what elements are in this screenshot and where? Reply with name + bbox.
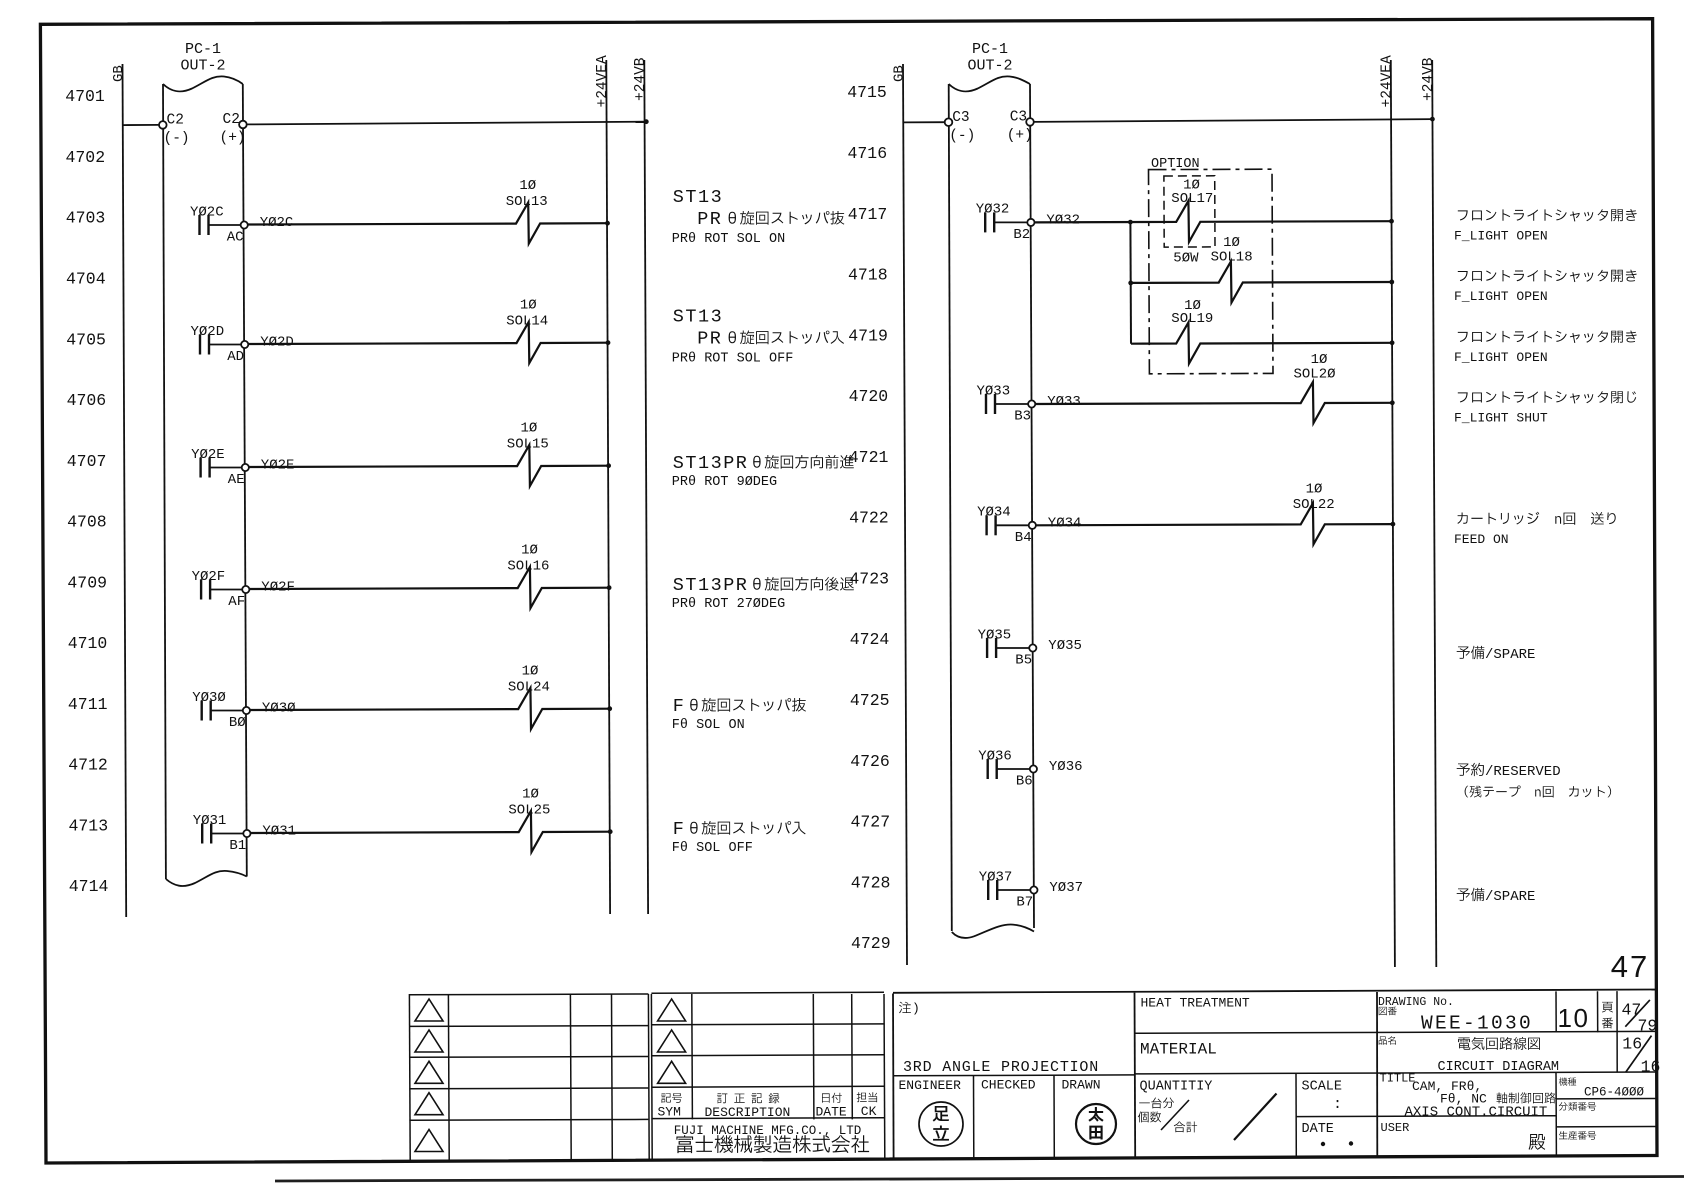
contact Y031	[201, 824, 203, 844]
svg-text:+24VEA: +24VEA	[595, 55, 611, 108]
svg-text:/SPARE: /SPARE	[1485, 889, 1535, 905]
svg-text:16: 16	[1622, 1035, 1642, 1054]
wire contact Y030 to node B0	[211, 710, 243, 712]
junction dot rung 4722 at +24VEA	[1391, 522, 1396, 527]
svg-text:WEE-1030: WEE-1030	[1421, 1013, 1533, 1035]
revision triangle (left table)	[415, 1130, 443, 1152]
svg-text:SOL19: SOL19	[1171, 311, 1213, 327]
wire rung to solenoid SOL24 and +24VEA	[250, 688, 610, 729]
svg-text:SOL14: SOL14	[506, 314, 548, 330]
svg-text:+24VB: +24VB	[1421, 57, 1437, 101]
svg-text:B6: B6	[1016, 774, 1033, 790]
svg-text:FEED ON: FEED ON	[1454, 532, 1509, 547]
node AC	[241, 221, 248, 228]
svg-text:4705: 4705	[66, 330, 106, 349]
svg-text:4704: 4704	[66, 270, 106, 289]
wire contact Y036 to node B6	[997, 768, 1030, 770]
description text	[1457, 512, 1615, 525]
svg-text:YØ33: YØ33	[977, 383, 1011, 399]
wire C3(+) to +24VB	[1034, 119, 1433, 122]
svg-text:CK: CK	[861, 1104, 877, 1119]
svg-text:4702: 4702	[65, 148, 105, 167]
svg-text:YØ2E: YØ2E	[191, 447, 225, 463]
svg-text:YØ2F: YØ2F	[192, 569, 226, 585]
svg-text:YØ34: YØ34	[1048, 515, 1082, 531]
revision triangle (right table)	[658, 999, 686, 1021]
svg-text:ST13PR: ST13PR	[673, 575, 749, 596]
svg-text:PRθ ROT 9ØDEG: PRθ ROT 9ØDEG	[672, 475, 777, 490]
svg-text:B4: B4	[1015, 530, 1032, 546]
svg-text:F_LIGHT OPEN: F_LIGHT OPEN	[1454, 289, 1548, 304]
wire contact Y035 to node B5	[996, 647, 1029, 649]
svg-text:PC-1: PC-1	[972, 41, 1008, 58]
svg-text:4713: 4713	[68, 816, 108, 835]
svg-text:SOL13: SOL13	[506, 194, 548, 210]
svg-text:PRθ ROT SOL OFF: PRθ ROT SOL OFF	[672, 352, 794, 367]
svg-text:YØ36: YØ36	[978, 748, 1012, 764]
svg-text:YØ36: YØ36	[1049, 759, 1083, 775]
svg-text:Fθ SOL ON: Fθ SOL ON	[672, 718, 745, 733]
svg-text:CP6-4ØØØ: CP6-4ØØØ	[1584, 1086, 1645, 1100]
svg-text:YØ32: YØ32	[1046, 212, 1080, 228]
PC-1 OUT-2 connector block (left) outline	[163, 84, 166, 879]
net +24VB (right)	[1432, 60, 1436, 967]
net +24VEA (right)	[1391, 60, 1395, 967]
svg-text:4718: 4718	[848, 266, 888, 285]
contact Y02C	[198, 215, 200, 235]
description text	[1458, 391, 1636, 403]
revision table left	[408, 994, 411, 1161]
drawn stamp	[1076, 1104, 1116, 1144]
node B5	[1029, 644, 1036, 651]
svg-text:47: 47	[1611, 949, 1649, 984]
svg-text:4708: 4708	[67, 513, 107, 532]
description text 4726	[1457, 763, 1484, 776]
svg-text:3RD ANGLE PROJECTION: 3RD ANGLE PROJECTION	[903, 1059, 1099, 1076]
svg-text:10: 10	[1558, 1003, 1590, 1033]
node B3	[1028, 400, 1035, 407]
description text	[1458, 209, 1637, 222]
svg-text:YØ35: YØ35	[1048, 638, 1082, 654]
revision triangle (left table)	[415, 1030, 443, 1052]
svg-text:SOL15: SOL15	[507, 437, 549, 453]
junction dot rung/SOL14 at +24VEA	[606, 340, 611, 345]
svg-text:Fθ SOL OFF: Fθ SOL OFF	[672, 841, 753, 856]
svg-text:16: 16	[1641, 1057, 1661, 1076]
node B0	[243, 707, 250, 714]
svg-text:4723: 4723	[849, 569, 889, 588]
description text	[1458, 331, 1637, 344]
svg-text:YØ33: YØ33	[1047, 394, 1081, 410]
junction dot rung/SOL16 at +24VEA	[607, 585, 612, 590]
wire contact Y034 to node B4	[996, 524, 1029, 526]
svg-text:AE: AE	[228, 472, 245, 488]
svg-text:SCALE: SCALE	[1302, 1080, 1343, 1095]
svg-text:AD: AD	[227, 349, 244, 365]
svg-text:YØ2F: YØ2F	[261, 580, 295, 596]
svg-text:C2: C2	[167, 113, 184, 129]
svg-text:4717: 4717	[848, 205, 888, 224]
junction dot rung/SOL24 at +24VEA	[607, 706, 612, 711]
node C3(-)	[945, 118, 953, 126]
svg-text:4716: 4716	[847, 144, 887, 163]
contact Y035	[986, 638, 988, 658]
svg-text:OPTION: OPTION	[1151, 157, 1200, 172]
page fraction 47/79	[1602, 1002, 1613, 1013]
svg-text:F: F	[673, 696, 686, 717]
svg-text:(+): (+)	[1007, 128, 1033, 144]
svg-text:YØ31: YØ31	[193, 813, 227, 829]
svg-text:YØ2D: YØ2D	[191, 324, 225, 340]
svg-text:SYM: SYM	[658, 1104, 681, 1119]
svg-text:SOL24: SOL24	[508, 680, 550, 696]
node AE	[242, 464, 249, 471]
wire GB to C3(-)	[903, 121, 945, 123]
svg-text:YØ2E: YØ2E	[261, 458, 295, 474]
svg-text:PR: PR	[697, 329, 722, 350]
svg-text:4720: 4720	[849, 387, 889, 406]
svg-text:C2: C2	[223, 112, 240, 128]
wire contact Y02C to node AC	[209, 224, 241, 226]
svg-text:SOL25: SOL25	[508, 803, 550, 819]
wire rung 4718 to SOL18 and +24VEA	[1131, 262, 1392, 303]
node B7	[1030, 886, 1037, 893]
wire rung 4720 (Y033) to SOL20 and +24VEA	[1036, 382, 1393, 423]
net +24VB (left)	[644, 60, 648, 914]
svg-text:1Ø: 1Ø	[521, 543, 538, 559]
svg-text:YØ3Ø: YØ3Ø	[192, 690, 226, 706]
svg-text:4712: 4712	[68, 756, 108, 775]
svg-text:F_LIGHT OPEN: F_LIGHT OPEN	[1454, 229, 1548, 244]
svg-text:4703: 4703	[66, 209, 106, 228]
title block grid	[893, 990, 1658, 993]
wire rung to solenoid SOL14 and +24VEA	[249, 322, 609, 363]
node B1	[243, 830, 250, 837]
svg-text:CHECKED: CHECKED	[981, 1078, 1036, 1093]
svg-text:B2: B2	[1013, 227, 1030, 243]
svg-text:ST13PR: ST13PR	[673, 453, 749, 474]
engineer stamp	[919, 1102, 963, 1146]
wire rung to solenoid SOL25 and +24VEA	[251, 811, 611, 852]
junction dot rung 4720 at +24VEA	[1390, 400, 1395, 405]
junction dot at +24VB (right)	[1430, 117, 1435, 122]
description text 4728	[1457, 888, 1485, 902]
description text	[1458, 270, 1637, 283]
junction dot branch T on rung 4717	[1128, 220, 1133, 225]
svg-text:QUANTITIY: QUANTITIY	[1140, 1080, 1213, 1095]
junction dot rung/SOL25 at +24VEA	[608, 829, 613, 834]
svg-text:PC-1: PC-1	[185, 41, 221, 58]
contact Y036	[987, 759, 989, 779]
node B2	[1027, 219, 1034, 226]
description text 4724	[1457, 646, 1485, 660]
node AD	[241, 341, 248, 348]
svg-text:ST13: ST13	[673, 307, 723, 328]
note cell	[899, 1002, 911, 1014]
wire rung to solenoid SOL15 and +24VEA	[249, 445, 608, 486]
contact Y02F	[200, 580, 202, 600]
junction dot at +24VB	[644, 119, 649, 124]
svg-text:B7: B7	[1016, 895, 1033, 911]
wire rung 4717 (Y032) to SOL17 and +24VEA	[1035, 201, 1392, 242]
contact Y037	[987, 880, 989, 900]
contact Y02E	[199, 458, 201, 478]
svg-text:YØ31: YØ31	[262, 824, 296, 840]
branch wire down to rungs 4718/4719	[1129, 222, 1132, 344]
svg-text:4719: 4719	[848, 326, 888, 345]
svg-text:YØ2C: YØ2C	[190, 204, 224, 220]
svg-text:+24VB: +24VB	[633, 57, 649, 101]
svg-text:+24VEA: +24VEA	[1380, 55, 1396, 108]
svg-text:B1: B1	[229, 838, 246, 854]
svg-text:C3: C3	[1010, 110, 1027, 126]
wire contact Y02D to node AD	[209, 344, 241, 346]
svg-text:SOL2Ø: SOL2Ø	[1294, 367, 1336, 383]
svg-text:4715: 4715	[847, 83, 887, 102]
svg-text:1Ø: 1Ø	[522, 787, 539, 803]
svg-text:(-): (-)	[949, 128, 975, 144]
OPTION group box	[1149, 169, 1274, 374]
svg-text:1Ø: 1Ø	[522, 664, 539, 680]
svg-text:SOL22: SOL22	[1293, 497, 1335, 513]
net GB (left ground bus)	[123, 64, 127, 917]
svg-text:DRAWING No.: DRAWING No.	[1378, 996, 1454, 1009]
svg-text:B3: B3	[1014, 409, 1031, 425]
contact Y033	[985, 394, 987, 414]
wire contact Y033 to node B3	[995, 403, 1028, 405]
svg-text:4709: 4709	[67, 573, 107, 592]
node B6	[1030, 765, 1037, 772]
svg-text:4722: 4722	[849, 509, 889, 528]
PC-1 OUT-2 connector block (right) outline	[949, 84, 952, 931]
svg-text:OUT-2: OUT-2	[180, 58, 225, 75]
svg-text:/SPARE: /SPARE	[1485, 647, 1535, 663]
svg-text:): )	[912, 1001, 920, 1016]
svg-text:F_LIGHT SHUT: F_LIGHT SHUT	[1454, 411, 1548, 426]
revision header texts	[661, 1093, 682, 1103]
node C2(+)	[239, 121, 247, 129]
svg-text:4710: 4710	[68, 634, 108, 653]
svg-text:YØ37: YØ37	[1049, 880, 1083, 896]
svg-text:OUT-2: OUT-2	[967, 58, 1012, 75]
svg-text:BØ: BØ	[229, 715, 246, 731]
svg-text:USER: USER	[1381, 1121, 1410, 1135]
wire C2(+) to +24VB	[247, 122, 647, 125]
svg-text:F: F	[673, 819, 686, 840]
svg-text:F_LIGHT OPEN: F_LIGHT OPEN	[1454, 350, 1548, 365]
contact Y030	[200, 701, 202, 721]
node AF	[242, 586, 249, 593]
product name cell	[1379, 1036, 1396, 1045]
junction dot rung/SOL15 at +24VEA	[606, 463, 611, 468]
svg-text:4701: 4701	[65, 87, 105, 106]
wire contact Y031 to node B1	[211, 833, 243, 835]
revision triangle (left table)	[415, 999, 443, 1021]
svg-text::: :	[1333, 1096, 1342, 1113]
svg-text:4714: 4714	[69, 877, 109, 896]
svg-text:YØ35: YØ35	[978, 627, 1012, 643]
contact Y032	[984, 212, 986, 232]
svg-text:4728: 4728	[851, 873, 891, 892]
svg-text:4725: 4725	[850, 691, 890, 710]
junction dot rung 4718 at +24VEA	[1389, 280, 1394, 285]
paper edge	[275, 1177, 1684, 1182]
svg-text:FUJI MACHINE MFG.CO., LTD: FUJI MACHINE MFG.CO., LTD	[674, 1124, 862, 1138]
svg-text:4729: 4729	[851, 934, 891, 953]
wire GB to C2(-)	[123, 124, 159, 126]
svg-text:79: 79	[1638, 1017, 1658, 1036]
wire contact Y037 to node B7	[997, 889, 1030, 891]
wire rung to solenoid SOL13 and +24VEA	[248, 203, 608, 244]
svg-text:1Ø: 1Ø	[519, 178, 536, 194]
svg-text:YØ37: YØ37	[979, 869, 1013, 885]
wire contact Y032 to node B2	[994, 221, 1027, 223]
contact Y034	[985, 515, 987, 535]
svg-text:C3: C3	[952, 110, 969, 126]
svg-text:YØ2D: YØ2D	[260, 335, 294, 351]
node C2(-)	[159, 121, 167, 129]
svg-text:CIRCUIT DIAGRAM: CIRCUIT DIAGRAM	[1438, 1060, 1560, 1075]
svg-text:4707: 4707	[67, 452, 107, 471]
svg-text:YØ3Ø: YØ3Ø	[262, 701, 296, 717]
net GB (right ground bus)	[903, 64, 907, 965]
contact Y02D	[199, 335, 201, 355]
svg-text:GB: GB	[892, 65, 908, 82]
svg-text:AXIS CONT.CIRCUIT: AXIS CONT.CIRCUIT	[1405, 1105, 1548, 1121]
revision triangle (left table)	[415, 1061, 443, 1083]
junction dot rung 4719 at +24VEA	[1390, 340, 1395, 345]
svg-text:1Ø: 1Ø	[520, 421, 537, 437]
svg-text:4727: 4727	[850, 813, 890, 832]
wire rung 4722 (Y034) to SOL22 and +24VEA	[1036, 503, 1393, 544]
revision table right	[650, 994, 653, 1161]
svg-text:ENGINEER: ENGINEER	[899, 1078, 962, 1093]
svg-text:5ØW: 5ØW	[1173, 251, 1199, 267]
svg-text:DATE: DATE	[1302, 1122, 1334, 1137]
junction dot rung 4717 at +24VEA	[1389, 219, 1394, 224]
svg-text:ST13: ST13	[673, 187, 723, 208]
svg-text:DESCRIPTION: DESCRIPTION	[705, 1105, 791, 1120]
svg-text:4711: 4711	[68, 695, 108, 714]
svg-text:YØ34: YØ34	[977, 505, 1011, 521]
wire contact Y02F to node AF	[210, 589, 242, 591]
svg-text:AF: AF	[228, 594, 245, 610]
junction dot rung/SOL13 at +24VEA	[605, 221, 610, 226]
wire rung to solenoid SOL16 and +24VEA	[250, 567, 609, 608]
svg-text:4721: 4721	[849, 448, 889, 467]
svg-text:/RESERVED: /RESERVED	[1485, 764, 1561, 780]
svg-text:SOL17: SOL17	[1171, 191, 1213, 207]
svg-text:4706: 4706	[67, 391, 107, 410]
junction dot branch/rung 4718	[1128, 281, 1133, 286]
svg-text:AC: AC	[227, 230, 244, 246]
revision triangle (right table)	[658, 1061, 686, 1083]
wire contact Y02E to node AE	[210, 467, 242, 469]
svg-text:TITLE: TITLE	[1380, 1072, 1416, 1086]
svg-text:PRθ ROT 27ØDEG: PRθ ROT 27ØDEG	[672, 597, 785, 612]
wire rung 4719 to SOL19 and +24VEA	[1131, 323, 1392, 364]
svg-text:DRAWN: DRAWN	[1062, 1077, 1101, 1092]
node C3(+)	[1026, 118, 1034, 126]
revision triangle (right table)	[658, 1030, 686, 1052]
svg-text:PR: PR	[697, 209, 722, 230]
svg-text:YØ32: YØ32	[976, 202, 1010, 218]
svg-text:DATE: DATE	[816, 1104, 847, 1119]
svg-text:4724: 4724	[850, 630, 890, 649]
svg-text:HEAT TREATMENT: HEAT TREATMENT	[1141, 996, 1250, 1011]
net +24VEA (left)	[606, 60, 610, 914]
svg-text:SOL18: SOL18	[1211, 250, 1253, 266]
svg-text:(+): (+)	[220, 131, 246, 147]
svg-text:SOL16: SOL16	[507, 559, 549, 575]
svg-text:GB: GB	[111, 65, 127, 82]
svg-text:YØ2C: YØ2C	[260, 215, 294, 231]
revision triangle (left table)	[415, 1093, 443, 1115]
node B4	[1029, 522, 1036, 529]
SOL17 option sub-box	[1164, 176, 1215, 247]
svg-text:MATERIAL: MATERIAL	[1140, 1041, 1217, 1059]
model cell	[1559, 1077, 1576, 1085]
svg-text:4726: 4726	[850, 752, 890, 771]
svg-text:1Ø: 1Ø	[1306, 482, 1323, 498]
svg-text:PRθ ROT SOL ON: PRθ ROT SOL ON	[672, 232, 785, 247]
svg-text:(-): (-)	[164, 131, 190, 147]
svg-text:B5: B5	[1015, 653, 1032, 669]
svg-text:1Ø: 1Ø	[520, 298, 537, 314]
